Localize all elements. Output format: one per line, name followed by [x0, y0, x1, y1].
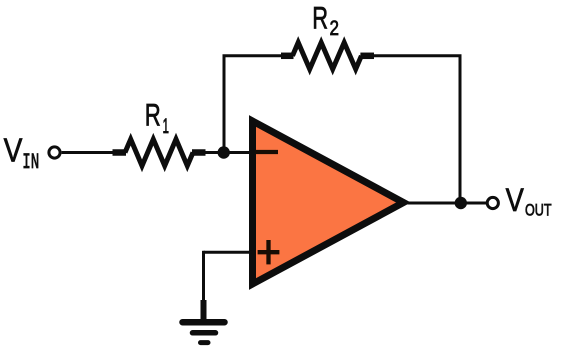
op-amp U1 (triangle) — [253, 121, 404, 284]
label VOUT — [506, 182, 552, 219]
svg-text:R: R — [312, 0, 328, 35]
wire input to R1 — [62, 151, 114, 154]
wire node A up to feedback — [223, 55, 226, 153]
svg-text:1: 1 — [163, 115, 170, 138]
wire right vertical down — [459, 55, 462, 204]
wire ground stub thick — [201, 300, 207, 320]
label VIN — [4, 132, 40, 175]
wire plus input horizontal — [204, 251, 253, 254]
resistor R1 — [113, 139, 206, 166]
svg-text:R: R — [145, 96, 161, 132]
node A (junction dot) — [218, 146, 230, 158]
svg-text:IN: IN — [22, 150, 39, 175]
wire R2 to right vertical — [373, 54, 462, 57]
terminal output (open circle) — [487, 197, 498, 208]
svg-text:OUT: OUT — [525, 200, 552, 219]
svg-text:V: V — [506, 182, 525, 218]
label R2 — [312, 0, 339, 40]
wire top-left horizontal — [223, 54, 284, 57]
wire R1 to node A — [204, 151, 252, 154]
terminal input (open circle) — [49, 147, 60, 158]
node B (output junction dot) — [455, 197, 467, 209]
label R1 — [145, 96, 169, 138]
resistor R2 — [281, 43, 374, 70]
plus sign (non-inverting input) — [258, 240, 280, 264]
ground symbol — [183, 322, 225, 342]
minus sign (inverting input) — [256, 150, 279, 154]
svg-text:V: V — [4, 132, 23, 169]
wire output — [408, 202, 488, 205]
svg-text:2: 2 — [330, 17, 340, 40]
wire ground vertical thin — [202, 251, 205, 302]
